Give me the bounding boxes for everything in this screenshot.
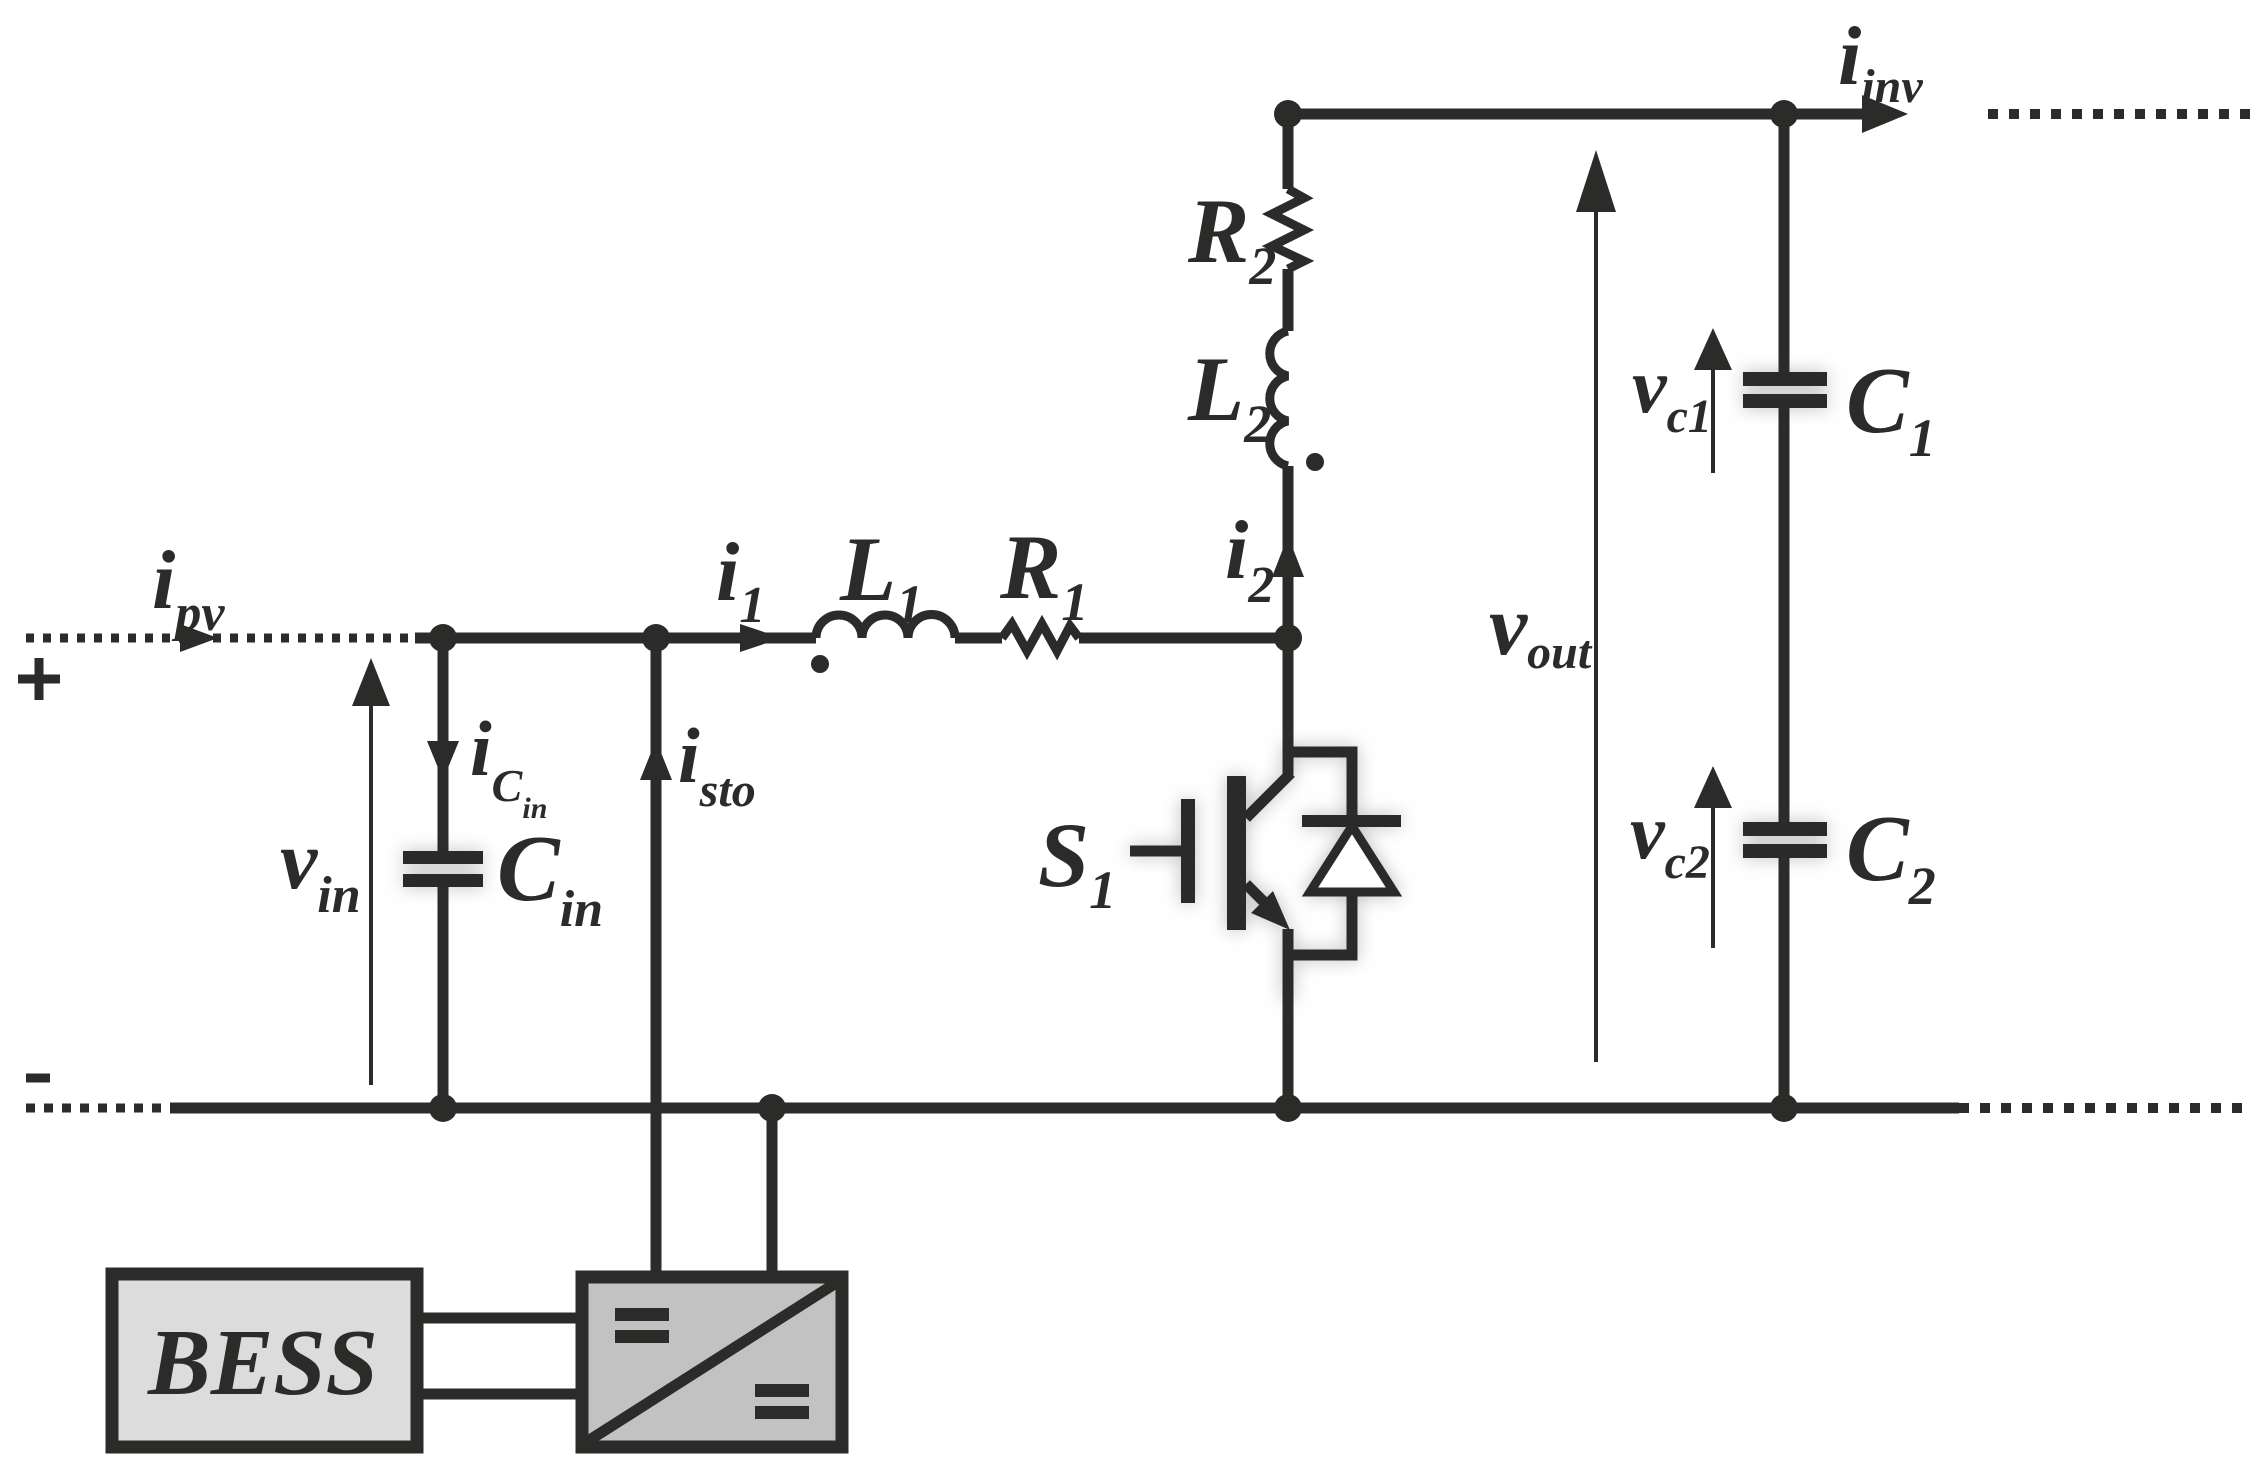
node junction bottom Cin	[429, 1094, 457, 1122]
inductor L1 polarity dot	[811, 655, 829, 673]
i1 arrow head	[740, 624, 782, 652]
svg-text:i2: i2	[1225, 504, 1274, 614]
wire bottom rail dotted left	[26, 1104, 170, 1113]
wire from L2 to node	[1283, 466, 1294, 638]
inductor L2 polarity dot	[1306, 453, 1324, 471]
wire emitter to bottom rail	[1283, 990, 1294, 1108]
v_in arrow	[369, 700, 373, 1085]
svg-text:C2: C2	[1846, 797, 1936, 916]
converter DC symbol bottom-right	[755, 1384, 809, 1419]
resistor R1	[1002, 624, 1079, 651]
svg-text:L1: L1	[839, 518, 923, 634]
wire bottom rail dotted right	[1959, 1103, 2252, 1113]
svg-text:iinv: iinv	[1838, 10, 1923, 113]
wire BESS to converter upper	[423, 1313, 576, 1324]
gate lead S1	[1130, 846, 1181, 857]
node junction mid right	[1274, 624, 1302, 652]
capacitor C2	[1743, 822, 1827, 858]
wire mid rail dotted (pv input)	[26, 634, 420, 643]
node junction mid (sto)	[642, 624, 670, 652]
node junction bottom converter	[758, 1094, 786, 1122]
svg-text:R1: R1	[999, 516, 1088, 632]
node junction top left	[1274, 100, 1302, 128]
inductor L1	[816, 615, 955, 639]
diode bypass bracket	[1288, 752, 1352, 955]
plus sign	[18, 658, 60, 700]
wire top rail dotted	[1988, 109, 2252, 119]
diode D1 cathode bar	[1302, 815, 1401, 827]
node junction bottom output	[1770, 1094, 1798, 1122]
svg-text:vout: vout	[1489, 577, 1593, 679]
wire node to collector	[1283, 638, 1294, 760]
wire between L1 and R1	[955, 633, 1002, 644]
svg-text:C1: C1	[1846, 349, 1936, 468]
capacitor Cin branch wire lower	[438, 885, 449, 1108]
svg-text:S1: S1	[1038, 804, 1116, 920]
node junction bottom switch	[1274, 1094, 1302, 1122]
wire BESS to converter lower	[423, 1389, 576, 1400]
svg-text:L2: L2	[1187, 338, 1271, 454]
collector diagonal	[1246, 773, 1291, 818]
capacitor C1	[1743, 372, 1827, 408]
diode D1 triangle	[1310, 826, 1394, 892]
emitter diagonal with arrow	[1246, 884, 1268, 906]
v_c2 arrow	[1711, 808, 1715, 948]
inductor L2	[1270, 331, 1288, 466]
i_sto branch wire	[651, 638, 662, 1271]
wire bottom rail solid	[170, 1103, 1959, 1114]
output rail upper segment	[1779, 114, 1790, 374]
svg-text:Cin: Cin	[497, 817, 603, 938]
svg-text:vin: vin	[280, 814, 361, 924]
collector wire into IGBT	[1283, 745, 1294, 775]
node junction mid left (Cin)	[429, 624, 457, 652]
BESS box	[112, 1274, 417, 1447]
body bar	[1227, 776, 1246, 930]
output rail middle segment	[1779, 406, 1790, 824]
i_inv arrow head	[1862, 95, 1908, 133]
svg-text:i1: i1	[716, 526, 765, 634]
i_pv arrow head	[180, 624, 218, 652]
converter diagonal	[588, 1283, 836, 1441]
node junction top right	[1770, 100, 1798, 128]
transistor S1 (IGBT with antiparallel diode)	[1130, 745, 1401, 1000]
i_Cin arrow head	[427, 741, 459, 780]
wire between R2 and L2	[1283, 269, 1294, 331]
v_out arrow	[1594, 205, 1598, 1062]
v_c1 arrow	[1711, 370, 1715, 473]
minus sign	[26, 1074, 50, 1083]
svg-text:iCin: iCin	[470, 705, 547, 825]
svg-text:isto: isto	[678, 712, 756, 817]
i2 arrow head	[1272, 536, 1304, 577]
resistor R2	[1272, 189, 1304, 269]
wire from top rail to R2	[1283, 114, 1294, 189]
emitter wire	[1283, 929, 1294, 1000]
svg-text:ipv: ipv	[152, 534, 225, 642]
wire converter stub	[767, 1108, 778, 1271]
converter DC symbol top-left	[615, 1308, 669, 1343]
gate bar	[1181, 799, 1195, 903]
wire mid rail solid left	[415, 633, 816, 644]
output rail lower segment	[1779, 856, 1790, 1108]
wire top rail solid	[1288, 109, 1862, 120]
svg-text:BESS: BESS	[147, 1311, 378, 1415]
svg-text:R2: R2	[1187, 180, 1276, 296]
capacitor Cin	[403, 851, 483, 887]
i_sto arrow head	[640, 740, 672, 780]
wire from R1 to node	[1079, 633, 1288, 644]
capacitor Cin branch wire upper	[438, 638, 449, 853]
converter DC/DC box	[582, 1277, 842, 1447]
